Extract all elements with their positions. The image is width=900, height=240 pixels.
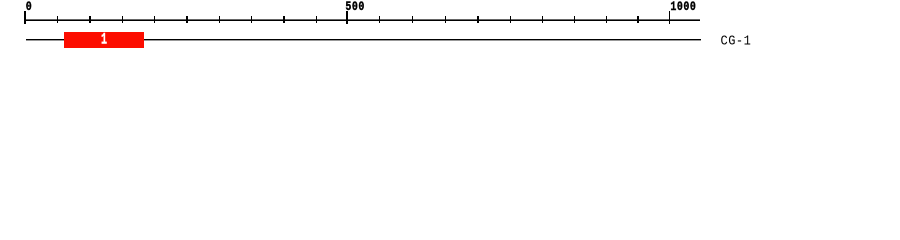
feature box 1 (red) — [64, 32, 144, 47]
minor tick 800 — [542, 16, 543, 23]
minor tick 300 — [219, 16, 220, 23]
minor tick 900 — [606, 16, 607, 23]
minor tick 650 — [445, 16, 446, 23]
minor tick 200 — [154, 16, 155, 23]
major tick 1000 — [669, 11, 670, 24]
feature label 1 — [101, 34, 108, 50]
minor tick 350 — [251, 16, 252, 23]
scale label 500 — [345, 2, 365, 15]
minor tick 150 — [122, 16, 123, 23]
major tick 500 — [346, 11, 347, 24]
major tick 0 — [24, 11, 25, 24]
minor tick 100 — [89, 16, 90, 23]
sequence line — [26, 39, 701, 40]
minor tick 750 — [510, 16, 511, 23]
scale label 1000 — [670, 2, 696, 15]
ruler axis line (0..1000 scale) — [24, 19, 700, 20]
minor tick 600 — [412, 16, 413, 23]
minor tick 700 — [477, 16, 478, 23]
minor tick 400 — [283, 16, 284, 23]
minor tick 550 — [379, 16, 380, 23]
minor tick 450 — [316, 16, 317, 23]
minor tick 950 — [637, 16, 638, 23]
minor tick 250 — [186, 16, 187, 23]
scale label 0 — [26, 2, 33, 15]
contig name CG-1 — [721, 34, 752, 48]
minor tick 850 — [574, 16, 575, 23]
minor tick 50 — [57, 16, 58, 23]
